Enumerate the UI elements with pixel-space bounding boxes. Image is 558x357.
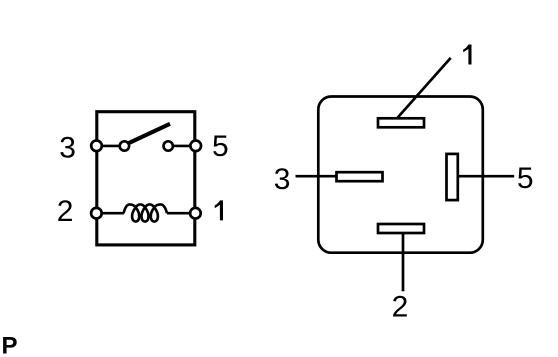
- pin 1 slot: [378, 118, 424, 127]
- relay connector body outline: [318, 97, 483, 253]
- leader line pin 1: [398, 58, 451, 118]
- relay K1 internal schematic box: [97, 112, 195, 245]
- label terminal 1 (schematic): [215, 200, 223, 220]
- terminal 2 circle: [91, 208, 102, 219]
- wire terminal 3 to switch pivot: [97, 145, 125, 148]
- label pin 1: [463, 45, 471, 65]
- svg-text:3: 3: [274, 163, 291, 196]
- svg-text:5: 5: [517, 162, 534, 195]
- terminal 5 circle: [190, 141, 201, 152]
- pin 5 slot: [447, 154, 458, 200]
- wire coil to terminal 1: [167, 212, 195, 215]
- svg-text:P: P: [2, 333, 18, 357]
- terminal 1 circle: [190, 208, 201, 219]
- wire fixed contact to terminal 5: [168, 145, 195, 148]
- relay coil L1: [124, 204, 168, 221]
- switch arm SW: [128, 124, 170, 144]
- leader line pin 3: [296, 175, 337, 178]
- switch pivot contact circle: [120, 141, 129, 150]
- switch fixed contact circle: [164, 141, 173, 150]
- svg-text:2: 2: [392, 291, 409, 324]
- pin 3 slot: [337, 172, 383, 181]
- leader line pin 5: [459, 175, 514, 178]
- pin 2 slot: [378, 224, 424, 233]
- wire terminal 2 to coil: [96, 212, 124, 215]
- svg-text:2: 2: [57, 195, 74, 228]
- terminal 3 circle: [91, 141, 102, 152]
- leader line pin 2: [402, 234, 405, 291]
- svg-text:5: 5: [212, 130, 229, 163]
- svg-text:3: 3: [59, 132, 76, 165]
